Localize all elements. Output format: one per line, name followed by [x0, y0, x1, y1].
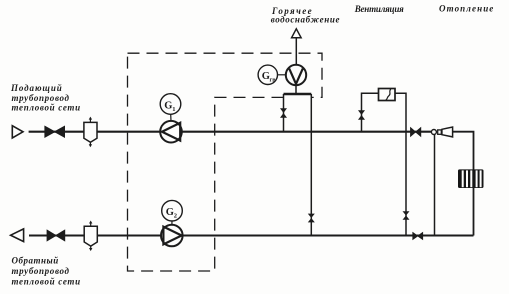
valve on heating return	[413, 233, 423, 240]
wire: hot water right downcomer to return	[310, 94, 312, 236]
svg-text:Отопление: Отопление	[439, 3, 494, 13]
svg-text:2: 2	[174, 213, 177, 220]
svg-text:гв: гв	[270, 78, 277, 84]
valve on ventilation return downcomer	[403, 211, 410, 220]
svg-text:трубопровод: трубопровод	[12, 266, 70, 276]
wire: hot water riser above pump	[295, 39, 297, 66]
wire: hot water header	[284, 93, 312, 95]
wire: supply main line	[29, 131, 432, 133]
wire: ventilation supply riser	[362, 93, 379, 131]
node: elevator mixing tee	[431, 130, 436, 135]
flow meter G1	[160, 94, 181, 115]
valve on hot water right downcomer	[308, 214, 315, 223]
node: supply inlet arrow	[12, 126, 23, 138]
svg-text:Подающий: Подающий	[10, 83, 63, 93]
valve on heating supply	[411, 128, 421, 137]
elevator nozzle	[438, 130, 442, 134]
radiator	[458, 169, 484, 188]
dashed boundary of heat point (right/top portion)	[128, 53, 323, 97]
wire: ventilation return downcomer	[395, 93, 406, 235]
node: return outlet arrow	[11, 229, 24, 242]
svg-text:1: 1	[172, 106, 175, 113]
wire: hot water pump down to header	[295, 85, 297, 94]
label: Обратный трубопровод тепловой сети	[12, 255, 81, 286]
node: hot water outlet arrow	[292, 29, 302, 38]
mud filter on return	[84, 221, 97, 252]
svg-text:Вентиляция: Вентиляция	[354, 4, 404, 14]
flow meter G2	[162, 200, 183, 221]
label: Горячее водоснабжение	[271, 6, 340, 25]
valve on supply inlet	[45, 126, 65, 137]
heater (calorifer)	[379, 89, 396, 101]
pump G2 on return	[161, 225, 183, 247]
svg-text:водоснабжение: водоснабжение	[271, 15, 340, 25]
wire: hot water left downcomer to supply	[283, 94, 285, 132]
pump G1 on supply	[160, 121, 182, 143]
flow meter Gгв	[258, 65, 277, 84]
wire: return main line	[29, 234, 474, 236]
svg-text:трубопровод: трубопровод	[12, 93, 70, 103]
dashed boundary of heat point (left/bottom portion)	[128, 53, 284, 271]
elevator cone	[442, 127, 453, 137]
wire: G1 meter to pump	[170, 114, 172, 121]
wire: elevator return riser	[434, 135, 436, 236]
svg-text:тепловой сети: тепловой сети	[12, 277, 81, 287]
svg-text:G: G	[164, 100, 172, 111]
valve on hot water left downcomer	[280, 108, 287, 117]
pump Gгв (hot water)	[286, 65, 306, 85]
wire: Gгв meter to pump	[278, 74, 287, 76]
svg-text:G: G	[166, 207, 174, 218]
valve on return outlet	[47, 230, 65, 241]
svg-text:тепловой сети: тепловой сети	[12, 103, 81, 113]
svg-text:Обратный: Обратный	[12, 255, 59, 265]
wire: G2 meter to pump	[171, 221, 173, 225]
wire: supply line elevator outlet to right corner	[453, 132, 474, 236]
mud filter on supply	[84, 117, 97, 148]
valve on ventilation supply riser	[358, 110, 365, 119]
label: Подающий трубопровод тепловой сети	[10, 83, 81, 112]
